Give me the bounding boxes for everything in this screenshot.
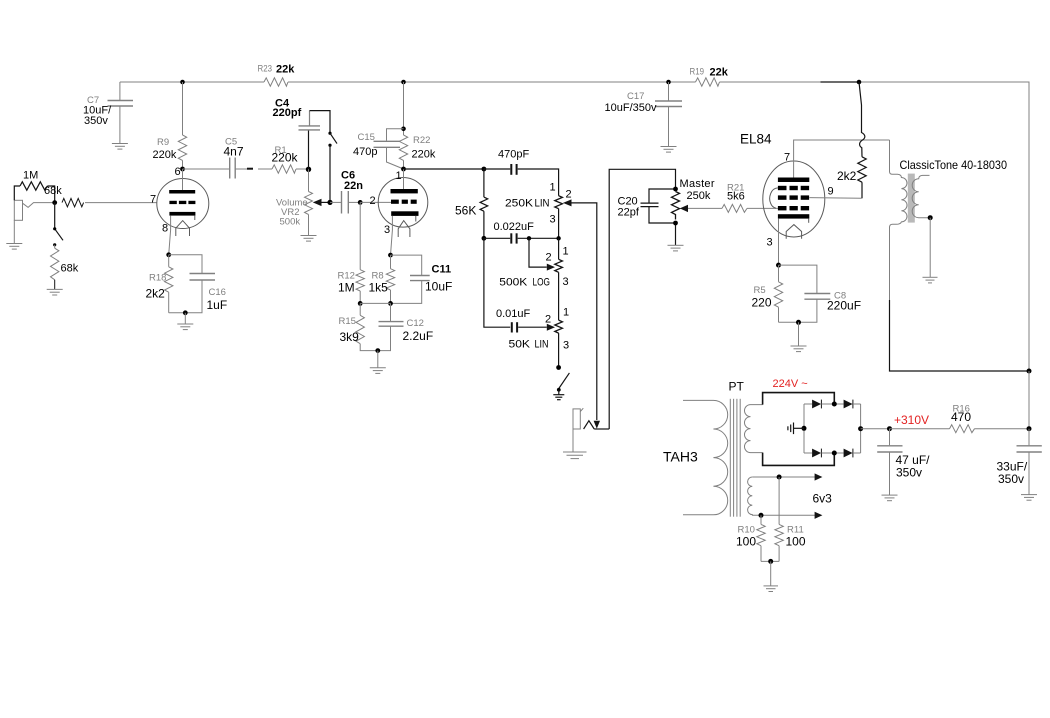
svg-text:470: 470 <box>951 410 971 424</box>
svg-text:470pF: 470pF <box>498 149 529 161</box>
svg-text:5k6: 5k6 <box>727 191 745 203</box>
svg-text:220: 220 <box>752 296 772 310</box>
wire: feedback loop up and to master <box>609 169 675 429</box>
capacitor C4 220pf bright cap <box>309 111 331 170</box>
node: wiper junction <box>327 200 332 205</box>
triode V1 (ECC83 half) <box>157 179 209 237</box>
capacitor C20 22pf <box>641 189 676 223</box>
resistor R10 100 <box>757 515 765 561</box>
wire: 68k to grid pin7 <box>85 202 157 204</box>
potentiometer Bass 50K LIN <box>555 320 563 367</box>
svg-text:250K: 250K <box>505 198 534 210</box>
svg-text:0.01uF: 0.01uF <box>496 308 531 320</box>
PT core <box>730 399 740 517</box>
resistor R11 100 <box>775 477 783 561</box>
wiper arrow 50K <box>547 324 555 331</box>
svg-text:2: 2 <box>566 189 572 201</box>
wire: screen pin9 lead <box>809 197 861 200</box>
resistor R16 470 <box>950 425 975 433</box>
svg-text:50K: 50K <box>509 339 531 351</box>
node: EL84 cathode junction <box>776 263 781 268</box>
wire: 2k2 to pin 9 <box>861 182 863 198</box>
potentiometer VR2 Volume 500k <box>305 169 313 235</box>
wire: to ground <box>377 351 379 368</box>
svg-text:+310V: +310V <box>894 413 929 427</box>
node: V2 anode <box>401 167 406 172</box>
svg-text:LIN: LIN <box>535 198 550 210</box>
svg-text:22pf: 22pf <box>618 207 640 219</box>
wiper arrow 250K <box>563 199 572 206</box>
resistor R21 5k6 <box>722 204 747 212</box>
wire: rail R19 to screen tap <box>720 81 821 83</box>
svg-text:350v: 350v <box>84 115 108 127</box>
OT secondary winding <box>912 175 930 217</box>
node: bridge AC top <box>832 402 837 407</box>
capacitor C17 10uF/350v <box>655 82 682 147</box>
svg-text:10uF/350v: 10uF/350v <box>605 102 657 114</box>
arrow: heater top <box>815 473 823 480</box>
wire: filter node to R16 <box>890 428 950 430</box>
switch: bright switch <box>328 132 331 135</box>
switch: tone defeat to ground <box>559 373 570 389</box>
resistor R9 220k plate load V1 <box>178 82 186 169</box>
resistor R19 <box>696 78 720 86</box>
node: tone stack input <box>482 167 487 172</box>
wire: rail C17 tap to R19 <box>669 81 696 83</box>
control grid curve <box>770 188 778 208</box>
wire: bridge minus vertical <box>803 404 805 453</box>
potentiometer Middle 500K LOG <box>555 238 563 320</box>
wire: V2 anode to tone stack <box>404 168 484 170</box>
svg-text:56K: 56K <box>455 204 476 218</box>
svg-text:0.022uF: 0.022uF <box>494 221 535 233</box>
wire: heater bottom lead <box>752 514 815 516</box>
svg-text:1: 1 <box>550 182 556 194</box>
capacitor 47uF/350v <box>877 429 902 495</box>
node: R12 bottom <box>358 301 363 306</box>
wire: right rail down to R16 node <box>1028 371 1030 429</box>
wire: V1 cathode lead <box>169 216 171 255</box>
svg-text:1M: 1M <box>338 281 355 295</box>
svg-text:PT: PT <box>729 380 745 394</box>
svg-text:1: 1 <box>396 170 402 182</box>
svg-text:10uF: 10uF <box>425 280 452 294</box>
node: rail junction at R9 <box>180 80 185 85</box>
switch: input shorting switch <box>55 203 63 241</box>
node: switch upper terminal <box>53 227 56 230</box>
wire: secondary to ground <box>929 218 931 277</box>
svg-text:2.2uF: 2.2uF <box>403 329 434 343</box>
svg-text:3: 3 <box>384 224 390 236</box>
PT HV secondary winding <box>745 405 763 453</box>
resistor R15 3k9 <box>356 303 378 350</box>
capacitor C8 220uF <box>779 265 831 322</box>
ground: OT secondary <box>923 277 938 283</box>
svg-text:3: 3 <box>550 214 556 226</box>
resistor R18 2k2 <box>165 255 173 313</box>
resistor 2k2 screen <box>858 157 866 182</box>
node: bridge plus <box>858 426 863 431</box>
node: bridge minus <box>802 426 807 431</box>
wire: R16 to 33uF node <box>975 428 1030 430</box>
node: V2 cathode network bottom <box>375 348 380 353</box>
node: 56K / 0.022uF junction <box>482 236 487 241</box>
node: bridge AC bottom <box>832 451 837 456</box>
svg-text:3: 3 <box>563 276 569 288</box>
node: cathode junction <box>166 252 171 257</box>
svg-text:68k: 68k <box>61 263 79 275</box>
wire: rail right corner down right side <box>859 82 1029 371</box>
node: rail junction screen/2k2 branch <box>857 80 862 85</box>
ground: bridge minus (rotated small) <box>788 423 804 435</box>
svg-text:3: 3 <box>563 340 569 352</box>
wiper arrow 500K <box>547 264 555 271</box>
node: 50K pin3 switch terminal <box>556 365 561 370</box>
diode D1 <box>804 400 821 409</box>
node: input junction <box>52 200 57 205</box>
wire: top rail from C7 to R23 <box>120 81 264 83</box>
envelope <box>157 179 209 229</box>
wire: rail R22 tap to C17 tap <box>404 81 669 83</box>
svg-text:9: 9 <box>828 186 834 198</box>
node: rail junction at R22 <box>401 80 406 85</box>
svg-text:22n: 22n <box>344 180 363 192</box>
svg-text:2: 2 <box>545 314 551 326</box>
wire: R21 to EL84 grid <box>747 207 778 209</box>
node: heater bottom / R10 <box>759 513 764 518</box>
wire: rail black segment before screen tap <box>821 81 860 83</box>
ground: tone switch (small) <box>553 390 564 400</box>
node: cathode network bottom <box>183 310 188 315</box>
node: rail junction at C17 <box>666 80 671 85</box>
capacitor C5 4n7 <box>230 158 236 179</box>
B+ supply rail top <box>120 78 1029 371</box>
node: V2 grid junction <box>358 200 363 205</box>
svg-text:TAH3: TAH3 <box>663 449 698 465</box>
jack tip contact chevron <box>584 421 595 429</box>
resistor 56K <box>480 169 488 238</box>
ground: master <box>668 245 684 251</box>
node: cathode network bottom <box>796 320 801 325</box>
wire: R1 to volume node <box>296 168 309 170</box>
arrow: heater bottom <box>815 512 823 519</box>
svg-text:350v: 350v <box>896 466 922 480</box>
wire: treble wiper to output line <box>572 203 597 420</box>
node: humdinger center <box>768 559 773 564</box>
svg-text:3k9: 3k9 <box>340 330 360 344</box>
svg-text:22k: 22k <box>710 67 729 79</box>
svg-text:2: 2 <box>370 195 376 207</box>
svg-text:C17: C17 <box>627 91 644 102</box>
ground: V1 cathode <box>177 324 193 330</box>
svg-text:R18: R18 <box>149 273 166 284</box>
cathode bar <box>169 212 195 216</box>
svg-text:2: 2 <box>546 252 552 264</box>
heater filament <box>176 221 190 236</box>
svg-text:3: 3 <box>767 237 773 249</box>
wiper arrow VR2 <box>313 199 322 206</box>
svg-text:350v: 350v <box>998 472 1024 486</box>
ground: heater center tap <box>764 586 779 592</box>
ground: V2 cathode <box>370 368 386 374</box>
node: heater top / R11 <box>777 475 782 480</box>
svg-text:68k: 68k <box>44 185 62 197</box>
capacitor 0.01uF bass <box>484 238 547 332</box>
ground: C17 <box>661 147 677 153</box>
wire: OT primary bottom to B+ rail (black) <box>890 300 1030 371</box>
grid row 1 <box>778 186 809 190</box>
svg-text:100: 100 <box>786 535 806 549</box>
svg-text:2k2: 2k2 <box>837 169 857 183</box>
potentiometer Treble 250K LIN <box>555 196 563 239</box>
diode D2 <box>821 400 860 409</box>
svg-text:R5: R5 <box>754 285 766 296</box>
wire: anode node to plate <box>403 169 405 189</box>
wire: to ground <box>184 313 186 324</box>
svg-text:250k: 250k <box>687 190 711 202</box>
svg-text:8: 8 <box>162 222 168 234</box>
svg-text:7: 7 <box>150 194 156 206</box>
ground: output jack <box>563 452 587 459</box>
svg-text:1: 1 <box>563 246 569 258</box>
wire: wiper feed 500K <box>529 238 547 267</box>
grid row 2 <box>778 195 809 199</box>
svg-text:470p: 470p <box>353 146 377 158</box>
wire: bright switch to wiper node <box>329 145 331 202</box>
capacitor 33uF/350v <box>1017 429 1042 495</box>
node: +310V filter node <box>887 426 892 431</box>
capacitor C6 22n <box>330 191 360 214</box>
svg-text:R15: R15 <box>339 316 356 327</box>
wire: jack tip to feedback loop <box>594 428 609 430</box>
svg-text:C12: C12 <box>407 318 424 329</box>
svg-text:1uF: 1uF <box>207 298 228 312</box>
ground: 33uF <box>1021 495 1037 501</box>
wire: to grid pin 2 <box>360 201 391 203</box>
ground: EL84 cathode <box>791 346 807 352</box>
node: 250K pin3 / 500K pin1 <box>556 236 560 240</box>
node: V2 cathode junction <box>388 253 393 258</box>
grid dashes <box>169 201 195 204</box>
wire: to ground <box>770 561 772 585</box>
resistor R12 1M <box>356 202 364 303</box>
wire: screen branch from rail with hop over plate wire <box>859 82 865 157</box>
svg-text:220pf: 220pf <box>273 107 302 119</box>
wire: V2 cathode lead <box>391 216 393 255</box>
node: master top <box>673 187 678 192</box>
capacitor C11 10uF <box>391 255 430 303</box>
svg-text:C15: C15 <box>358 132 375 143</box>
svg-text:EL84: EL84 <box>740 132 772 147</box>
svg-text:220k: 220k <box>153 149 177 161</box>
svg-text:R23: R23 <box>258 64 273 75</box>
svg-text:LOG: LOG <box>533 277 551 289</box>
svg-text:100: 100 <box>736 535 756 549</box>
ground: 47uF <box>882 495 898 501</box>
wire: bridge plus to filter node <box>861 428 890 430</box>
anode plate bar <box>169 190 195 194</box>
svg-text:220k: 220k <box>412 149 436 161</box>
output jack J2 <box>573 408 583 451</box>
capacitor C7 10uF/350v <box>108 82 134 144</box>
heater filament <box>786 225 801 239</box>
wire: rail R23 to R22 tap <box>288 81 404 83</box>
svg-text:4n7: 4n7 <box>224 145 244 159</box>
svg-text:Master: Master <box>680 178 715 190</box>
wire: to ground <box>798 322 800 346</box>
resistor 68k grid stopper <box>62 198 157 206</box>
wire: bridge plus vertical <box>860 404 862 453</box>
PT primary winding <box>683 400 728 514</box>
resistor 1M grid leak <box>14 182 54 203</box>
anode plate bar <box>778 178 809 183</box>
svg-text:1M: 1M <box>23 170 38 182</box>
capacitor C15 470p <box>374 129 404 169</box>
svg-text:220uF: 220uF <box>827 299 861 313</box>
triode V2 (ECC83 half) <box>378 178 428 238</box>
wire: V1 anode to C5 <box>183 168 230 170</box>
wire: anode node to plate <box>182 169 184 190</box>
capacitor C16 1uF <box>169 255 215 313</box>
svg-text:R22: R22 <box>413 135 430 146</box>
wire: plate pin7 up and to OT <box>794 140 890 178</box>
pentode EL84 <box>763 161 825 239</box>
resistor R22 220k plate load V2 with C15 470p bypass <box>399 82 407 169</box>
node: 33uF node <box>1027 426 1032 431</box>
svg-text:7: 7 <box>784 152 790 164</box>
PT 6.3V secondary winding <box>748 477 753 515</box>
diode D3 <box>804 449 821 458</box>
svg-text:6v3: 6v3 <box>813 492 833 506</box>
ground: input jack <box>6 244 22 250</box>
node: mid cap to wiper branch <box>527 236 531 240</box>
wire: V3 cathode lead <box>778 219 780 266</box>
ground: VR2 <box>301 236 317 242</box>
node: R8 bottom <box>388 301 393 306</box>
OT core <box>908 174 915 223</box>
svg-text:500k: 500k <box>280 217 301 228</box>
svg-text:LIN: LIN <box>535 339 549 351</box>
svg-text:R19: R19 <box>690 67 705 78</box>
cathode bar <box>778 214 809 218</box>
capacitor 0.022uF <box>484 233 559 243</box>
svg-text:1: 1 <box>563 307 569 319</box>
arrow: signal into jack <box>594 421 600 429</box>
svg-text:22k: 22k <box>276 64 295 76</box>
wire: master wiper to R21 <box>688 207 722 209</box>
node: R22/C15 top <box>401 127 406 132</box>
ground: 68k shunt <box>47 289 63 295</box>
capacitor C12 2.2uF <box>378 303 404 350</box>
capacitor 470pF treble <box>484 164 559 196</box>
svg-text:220k: 220k <box>272 151 299 165</box>
ground: C7 <box>112 144 128 150</box>
svg-text:224V ~: 224V ~ <box>773 378 808 390</box>
wire: C5 to R1 with retouch gap <box>235 168 247 170</box>
bridge rectifier outline <box>763 393 835 466</box>
node: switch lower terminal <box>53 243 56 246</box>
node: R1 / C4 / volume top <box>306 167 311 172</box>
svg-text:R9: R9 <box>157 137 169 148</box>
node: secondary bottom <box>928 215 933 220</box>
resistor 68k shunt <box>51 245 59 290</box>
resistor R8 1k5 <box>386 255 394 303</box>
node: V1 anode <box>180 167 185 172</box>
node: B+ rail junction <box>1027 369 1032 374</box>
svg-text:1k5: 1k5 <box>369 281 389 295</box>
input jack J1 <box>14 200 54 243</box>
diode D4 <box>821 449 860 458</box>
OT primary winding <box>890 140 908 302</box>
potentiometer Master 250k <box>672 192 680 246</box>
resistor R23 <box>264 78 288 86</box>
resistor R1 220k <box>272 165 296 173</box>
svg-text:ClassicTone 40-18030: ClassicTone 40-18030 <box>900 158 1008 172</box>
wire: humdinger bottom link <box>761 560 779 562</box>
resistor R5 220 <box>774 265 782 322</box>
grid row 3 <box>778 206 809 210</box>
svg-text:500K: 500K <box>499 277 528 289</box>
wiper arrow master <box>680 205 688 212</box>
svg-text:2k2: 2k2 <box>146 287 166 301</box>
node: master bottom <box>673 221 678 226</box>
svg-text:6: 6 <box>175 166 181 178</box>
wire: heater top lead <box>752 476 815 478</box>
wire: R12-R8 bottom link <box>360 302 390 304</box>
svg-text:C11: C11 <box>432 264 452 276</box>
svg-text:C16: C16 <box>209 287 226 298</box>
